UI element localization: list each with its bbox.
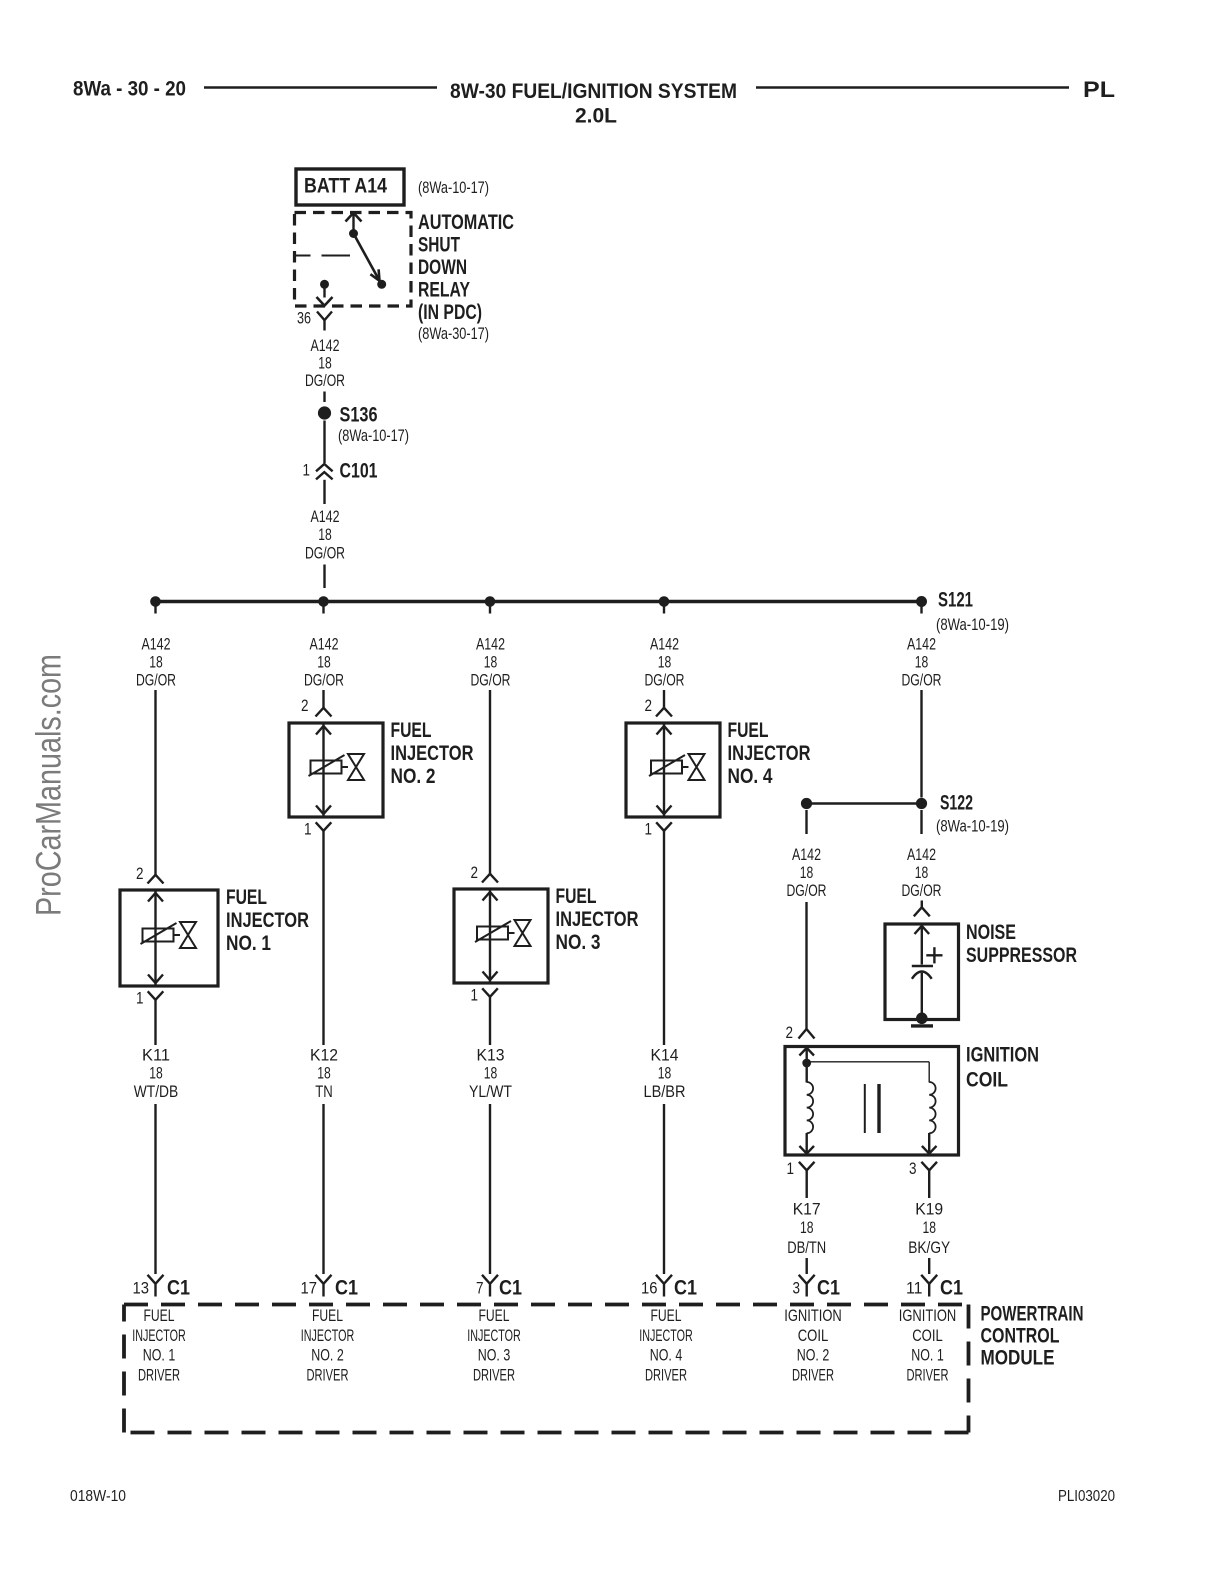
svg-text:C1: C1 [817,1277,840,1300]
splice S122 [916,792,1009,836]
svg-text:7: 7 [476,1280,484,1298]
wire col3 to PCM [489,1104,491,1274]
svg-text:1: 1 [645,821,653,839]
svg-text:SHUT: SHUT [418,234,460,257]
pcm driver label col4 [639,1307,693,1384]
footer right [1058,1488,1115,1505]
coil secondary winding L2 [929,1082,935,1133]
svg-text:018W-10: 018W-10 [70,1488,126,1505]
coil primary winding L1 [807,1082,813,1133]
wire label A142 18 DG/OR (suppressor feed) [902,846,942,900]
svg-text:3: 3 [793,1280,801,1298]
connector pin 2 injector 2 [316,708,332,717]
wire label A142 18 DG/OR col3 [471,636,511,690]
connector C1 pin 7 [476,1275,522,1300]
wire to ignition coil pin 2 [805,902,807,1029]
svg-text:LB/BR: LB/BR [644,1083,686,1101]
svg-text:COIL: COIL [966,1069,1008,1092]
svg-text:A142: A142 [311,337,340,355]
connector pin 3 ignition coil [921,1162,937,1198]
bus junction dot node 3 [485,596,496,607]
fuel injector no.2 box [289,719,474,817]
svg-text:S122: S122 [940,792,973,815]
svg-text:INJECTOR: INJECTOR [226,909,309,932]
svg-text:A142: A142 [907,846,936,864]
svg-text:MODULE: MODULE [981,1347,1055,1370]
capacitor plate straight [912,965,933,968]
watermark ProCarManuals.com [30,654,69,916]
wire col3 to injector 3 [489,690,491,874]
wire label A142 18 DG/OR col4 [645,636,685,690]
svg-text:NO. 4: NO. 4 [728,765,773,788]
coil secondary output arrow [922,1133,937,1154]
svg-text:C1: C1 [674,1277,697,1300]
injector 4 solenoid rect with diagonal [649,755,685,776]
svg-text:DRIVER: DRIVER [792,1366,834,1384]
svg-text:NO. 2: NO. 2 [391,765,436,788]
svg-text:18: 18 [149,1065,163,1083]
svg-text:DG/OR: DG/OR [902,882,942,900]
injector 2 solenoid rect with diagonal [309,755,345,776]
connector pin noise suppressor [914,907,930,916]
capacitor plate curved [912,972,932,979]
svg-text:DG/OR: DG/OR [902,672,942,690]
connector pin 2 injector 3 [482,874,498,883]
connector pin 2 ignition coil [799,1029,815,1039]
header title [450,79,737,128]
svg-text:COIL: COIL [798,1327,829,1345]
svg-text:BK/GY: BK/GY [908,1239,950,1257]
pcm driver label col1 [132,1307,186,1384]
svg-text:DRIVER: DRIVER [907,1366,949,1384]
injector 2 valve bowtie [342,754,365,780]
wire below C101 [323,480,325,504]
svg-text:18: 18 [318,355,332,373]
svg-text:2: 2 [136,865,144,883]
wire coil pin3 to PCM [928,1258,930,1274]
svg-text:S136: S136 [340,404,378,427]
footer left [70,1488,126,1505]
wire label K17 18 DB/TN [787,1201,826,1258]
svg-text:2: 2 [471,864,479,882]
svg-text:1: 1 [136,990,144,1008]
reference (8Wa-10-17) [418,179,489,197]
column 1 stub below bus [154,603,156,614]
injector 1 internal wire and arrows [148,891,163,985]
wire label K11 18 WT/DB [134,1047,179,1102]
svg-text:11: 11 [906,1280,923,1298]
bus junction dot node 1 [150,596,161,607]
connector C1 pin 17 [301,1275,359,1300]
ground junction dot [916,1013,928,1025]
splice S121 [916,589,1009,635]
wire capacitor to ground [921,973,923,1018]
injector 1 valve bowtie [174,922,197,948]
svg-text:NO. 2: NO. 2 [797,1347,830,1365]
fuel injector no.1 box [120,886,309,986]
relay K1 automatic shut down relay dashed box [295,213,412,307]
wire S136 to C101 [323,421,325,464]
svg-text:A142: A142 [476,636,505,654]
svg-text:NO. 4: NO. 4 [650,1347,683,1365]
svg-text:1: 1 [304,821,312,839]
svg-text:FUEL: FUEL [312,1307,343,1325]
column 3 stub below bus [489,603,491,614]
pcm driver label col6 [899,1307,957,1384]
splice S136 [318,404,409,446]
svg-text:BATT A14: BATT A14 [304,175,387,198]
svg-text:13: 13 [133,1280,150,1298]
wire label A142 18 DG/OR col1 [136,636,176,690]
svg-text:SUPPRESSOR: SUPPRESSOR [966,944,1077,967]
svg-text:(8Wa-10-17): (8Wa-10-17) [418,179,489,197]
coil primary output arrow [799,1133,814,1154]
wire coil pin1 to PCM [806,1258,808,1274]
header left page number [73,77,186,101]
connector C1 pin 11 [906,1275,963,1300]
pcm label [981,1303,1084,1370]
svg-text:(8Wa-10-17): (8Wa-10-17) [338,427,409,445]
relay output arrow down to pin 36 [317,284,333,305]
relay internal divider dashes [294,255,311,257]
svg-text:1: 1 [303,462,311,480]
bus junction dot node 2 [318,596,329,607]
header rule left [204,86,437,89]
svg-text:A142: A142 [907,636,936,654]
wire label A142 18 DG/OR (to bus) [305,508,345,563]
svg-text:FUEL: FUEL [479,1307,510,1325]
svg-text:17: 17 [301,1280,318,1298]
svg-text:18: 18 [915,654,929,672]
injector 1 solenoid rect with diagonal [141,923,177,944]
svg-text:DRIVER: DRIVER [307,1366,349,1384]
svg-text:(8Wa-30-17): (8Wa-30-17) [418,325,489,343]
pin 36 label [297,310,311,328]
connector pin 1 injector 3 [482,988,498,1045]
svg-text:FUEL: FUEL [728,719,769,742]
pcm driver label col2 [301,1307,355,1384]
svg-text:K11: K11 [142,1047,170,1065]
svg-text:2: 2 [301,697,309,715]
svg-text:IGNITION: IGNITION [966,1044,1039,1067]
svg-text:K14: K14 [651,1047,679,1065]
svg-text:DG/OR: DG/OR [645,672,685,690]
svg-text:18: 18 [317,1065,331,1083]
svg-text:1: 1 [471,987,479,1005]
svg-text:INJECTOR: INJECTOR [391,742,474,765]
svg-text:18: 18 [800,1219,814,1237]
svg-text:DG/OR: DG/OR [471,672,511,690]
wire S122 branch horizontal [807,802,922,804]
svg-text:K17: K17 [793,1201,821,1219]
stub below S122 left [805,810,807,834]
svg-text:A142: A142 [792,846,821,864]
svg-text:CONTROL: CONTROL [981,1325,1060,1348]
column 2 stub below bus [322,603,324,614]
svg-text:DRIVER: DRIVER [138,1366,180,1384]
svg-text:DG/OR: DG/OR [304,672,344,690]
svg-text:IGNITION: IGNITION [899,1307,957,1325]
connector pin 1 ignition coil [799,1162,815,1198]
svg-text:FUEL: FUEL [391,719,432,742]
svg-text:18: 18 [484,654,498,672]
svg-text:36: 36 [297,310,311,328]
svg-text:DG/OR: DG/OR [305,372,345,390]
wire stub above S136 [323,392,325,403]
svg-text:FUEL: FUEL [226,886,267,909]
wire label K14 18 LB/BR [644,1047,686,1102]
pcm driver label col5 [784,1307,842,1384]
capacitor C polarity plus [926,947,942,963]
svg-text:WT/DB: WT/DB [134,1083,179,1101]
svg-text:18: 18 [915,864,929,882]
svg-text:RELAY: RELAY [418,279,470,302]
svg-text:8Wa - 30 - 20: 8Wa - 30 - 20 [73,77,186,101]
svg-text:8W-30 FUEL/IGNITION SYSTEM: 8W-30 FUEL/IGNITION SYSTEM [450,79,737,103]
stub below S122 right [920,810,922,834]
wire col4 to PCM [663,1104,665,1274]
svg-text:NO. 2: NO. 2 [311,1347,344,1365]
fuel injector no.4 box [626,719,811,817]
svg-text:FUEL: FUEL [144,1307,175,1325]
injector 3 solenoid rect with diagonal [475,921,511,942]
ground symbol [911,1024,933,1027]
noise suppressor box [885,921,1077,1020]
svg-text:18: 18 [318,526,332,544]
svg-text:2: 2 [786,1024,794,1042]
relay switch arm with arrowhead [354,234,380,281]
header PL [1083,77,1115,102]
suppressor input arrow [915,926,930,965]
svg-text:INJECTOR: INJECTOR [728,742,811,765]
relay NO contact dot [320,280,329,289]
pcm driver label col3 [467,1307,521,1384]
svg-text:NO. 1: NO. 1 [911,1347,944,1365]
bus junction dot node 4 [659,596,670,607]
connector C1 pin 3 [793,1275,841,1300]
column 5 stub below bus [920,603,922,614]
svg-text:18: 18 [149,654,163,672]
svg-text:INJECTOR: INJECTOR [467,1327,521,1345]
fuel injector no.3 box [454,885,639,983]
connector pin 36 [317,312,332,331]
relay name label [418,211,514,343]
connector pin 1 injector 4 [656,822,672,1045]
battery feed box BATT A14 [296,169,404,205]
svg-text:C101: C101 [340,460,378,483]
svg-text:TN: TN [315,1083,333,1101]
junction dot S122 left [801,798,812,809]
injector 4 valve bowtie [682,754,705,780]
svg-text:A142: A142 [142,636,171,654]
svg-text:A142: A142 [310,636,339,654]
svg-text:DB/TN: DB/TN [787,1239,826,1257]
svg-text:(IN PDC): (IN PDC) [418,301,482,324]
svg-text:16: 16 [641,1280,658,1298]
coil internal junction dot [802,1059,811,1068]
svg-text:FUEL: FUEL [651,1307,682,1325]
connector pin 2 injector 4 [656,708,672,717]
svg-text:(8Wa-10-19): (8Wa-10-19) [936,616,1009,634]
injector 4 internal wire and arrows [657,724,672,816]
svg-text:2: 2 [645,697,653,715]
svg-text:INJECTOR: INJECTOR [301,1327,355,1345]
bus wire A142 [156,600,922,603]
svg-text:A142: A142 [311,508,340,526]
svg-text:NO. 3: NO. 3 [556,931,601,954]
wire label A142 18 DG/OR (coil feed) [787,846,827,900]
svg-text:K19: K19 [915,1201,943,1219]
svg-text:INJECTOR: INJECTOR [556,908,639,931]
svg-text:2.0L: 2.0L [575,104,617,128]
svg-text:DG/OR: DG/OR [136,672,176,690]
injector 3 internal wire and arrows [483,890,498,982]
svg-text:FUEL: FUEL [556,885,597,908]
wire stub to suppressor connector [921,901,923,908]
svg-text:AUTOMATIC: AUTOMATIC [418,211,514,234]
svg-text:C1: C1 [940,1277,963,1300]
column 4 stub below bus [663,603,665,614]
svg-text:C1: C1 [499,1277,522,1300]
svg-text:18: 18 [317,654,331,672]
svg-text:A142: A142 [650,636,679,654]
svg-text:C1: C1 [167,1277,190,1300]
wire col2 to PCM [322,1104,324,1274]
injector 3 valve bowtie [508,920,531,946]
svg-text:C1: C1 [335,1277,358,1300]
svg-text:NO. 1: NO. 1 [143,1347,176,1365]
svg-text:DRIVER: DRIVER [645,1366,687,1384]
relay common contact dot [349,229,358,238]
svg-text:ProCarManuals.com: ProCarManuals.com [30,654,69,916]
svg-text:3: 3 [909,1160,917,1178]
coil core lines [865,1084,879,1133]
svg-text:NO. 3: NO. 3 [478,1347,511,1365]
connector pin 1 injector 2 [316,822,332,1045]
wire col1 to injector 1 [154,690,156,875]
wire into bus [323,565,325,589]
svg-text:(8Wa-10-19): (8Wa-10-19) [936,818,1009,836]
svg-text:NOISE: NOISE [966,921,1016,944]
svg-text:S121: S121 [938,589,973,612]
svg-text:PL: PL [1083,77,1115,102]
svg-text:18: 18 [484,1065,498,1083]
header rule right [756,86,1069,89]
svg-text:POWERTRAIN: POWERTRAIN [981,1303,1084,1326]
connector C101 pin 1 [303,460,378,483]
svg-text:18: 18 [658,654,672,672]
svg-text:INJECTOR: INJECTOR [639,1327,693,1345]
wire col2 to injector 2 [322,690,324,708]
connector C1 pin 13 [133,1275,191,1300]
connector C1 pin 16 [641,1275,697,1300]
wire col4 to injector 4 [663,690,665,708]
wire label A142 18 DG/OR col5 [902,636,942,690]
svg-text:18: 18 [922,1219,936,1237]
svg-text:18: 18 [800,864,814,882]
connector pin 1 injector 1 [148,991,164,1045]
svg-text:DRIVER: DRIVER [473,1366,515,1384]
svg-text:18: 18 [658,1065,672,1083]
svg-text:PLI03020: PLI03020 [1058,1488,1115,1505]
svg-text:NO. 1: NO. 1 [226,932,271,955]
injector 2 internal wire and arrows [316,724,331,816]
wire label A142 18 DG/OR (relay output) [305,337,345,390]
ignition coil box [785,1044,1039,1156]
relay thrown contact dot [377,280,386,289]
svg-text:K13: K13 [477,1047,505,1065]
coil internal link wire [807,1062,930,1083]
svg-text:INJECTOR: INJECTOR [132,1327,186,1345]
wire label K12 18 TN [310,1047,338,1102]
svg-text:DG/OR: DG/OR [787,882,827,900]
wire col5 S121 to S122 [920,690,922,798]
relay common terminal arrow up [346,213,362,234]
svg-text:COIL: COIL [912,1327,943,1345]
svg-text:YL/WT: YL/WT [469,1083,512,1101]
powertrain control module dashed box [124,1305,969,1433]
svg-text:K12: K12 [310,1047,338,1065]
wire label A142 18 DG/OR col2 [304,636,344,690]
svg-text:DG/OR: DG/OR [305,545,345,563]
wire label K13 18 YL/WT [469,1047,512,1102]
svg-text:DOWN: DOWN [418,256,467,279]
wire col1 to PCM [154,1104,156,1274]
svg-text:1: 1 [787,1160,795,1178]
wire label K19 18 BK/GY [908,1201,950,1258]
coil primary input arrow [799,1048,814,1083]
connector pin 2 injector 1 [148,875,164,884]
svg-text:IGNITION: IGNITION [784,1307,842,1325]
